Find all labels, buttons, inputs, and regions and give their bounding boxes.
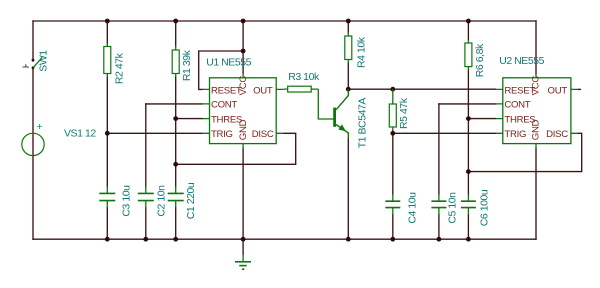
wire C3 bottom to rail: [106, 208, 108, 240]
svg-text:R6 6,8k: R6 6,8k: [474, 43, 486, 77]
svg-text:U2 NE555: U2 NE555: [499, 55, 544, 67]
capacitor C1: [168, 182, 197, 219]
svg-text:TRIG: TRIG: [504, 129, 526, 140]
wire left rail upper: [32, 21, 34, 60]
wire top rail: [33, 20, 536, 22]
wire R6 column top: [467, 21, 469, 40]
node top rail R6: [466, 19, 471, 24]
wire CONT2 horizontal: [439, 103, 496, 105]
svg-text:TRIG: TRIG: [211, 129, 233, 140]
node bottom rail C6: [466, 237, 471, 242]
resistor R6: [465, 40, 486, 78]
node top rail R2: [105, 19, 110, 24]
node DISC1 join: [173, 162, 178, 167]
svg-text:C3 10u: C3 10u: [120, 185, 132, 217]
svg-text:OUT: OUT: [548, 85, 568, 96]
capacitor C2: [138, 185, 168, 217]
node RESET1 VCC join: [241, 49, 246, 54]
wire C5 column: [438, 104, 440, 194]
node bottom rail C5: [437, 237, 442, 242]
wire GND2 column: [535, 149, 537, 240]
node bottom rail T1 emitter: [346, 237, 351, 242]
wire R1 bottom through THRES TRIG DISC to C1: [175, 77, 177, 186]
svg-text:CONT: CONT: [504, 100, 530, 111]
wire OUT2 stub end: [578, 88, 581, 90]
capacitor C3: [99, 185, 132, 217]
capacitor C4: [385, 192, 418, 224]
resistor R5: [389, 89, 410, 130]
wire R4 bottom to collector node: [347, 63, 349, 89]
node R5 top: [390, 87, 395, 92]
resistor R2: [104, 44, 125, 85]
svg-text:R2 47k: R2 47k: [113, 52, 125, 84]
node collector R4: [346, 87, 351, 92]
svg-text:VCC: VCC: [531, 76, 542, 96]
node bottom rail C4: [390, 237, 395, 242]
op-amp U1 NE555: [202, 56, 283, 148]
node bottom rail ground: [241, 237, 246, 242]
node bottom rail C3: [105, 237, 110, 242]
voltage source VS1: [22, 121, 97, 155]
wire THRES2 horizontal: [468, 118, 495, 120]
svg-text:R4 10k: R4 10k: [355, 36, 367, 68]
wire C2 column: [145, 104, 147, 186]
wire TRIG1 horizontal: [107, 132, 202, 134]
svg-text:C4 10u: C4 10u: [406, 192, 418, 224]
wire R6 bottom through THRES2 DISC2 to C6: [467, 70, 469, 194]
svg-text:+: +: [37, 121, 43, 133]
node top rail VCC1: [241, 19, 246, 24]
svg-text:U1 NE555: U1 NE555: [206, 56, 251, 68]
capacitor C5: [431, 192, 458, 224]
capacitor C6: [461, 189, 490, 226]
wire C6 bottom to rail: [467, 215, 469, 240]
node bottom rail C1: [173, 237, 178, 242]
ground: [235, 255, 251, 270]
node TRIG1: [105, 131, 110, 136]
svg-text:C2 10n: C2 10n: [156, 185, 168, 217]
wire collector horizontal to U2 RESET: [348, 88, 495, 90]
svg-text:GND: GND: [238, 119, 249, 140]
wire C5 bottom to rail: [438, 215, 440, 240]
svg-text:DISC: DISC: [546, 129, 568, 140]
svg-text:SW1: SW1: [37, 50, 49, 72]
switch SW1: [23, 50, 50, 72]
wire left rail lower: [32, 68, 34, 239]
wire TRIG2 horizontal: [393, 132, 496, 134]
wire DISC1 routing: [176, 133, 296, 164]
svg-text:VCC: VCC: [238, 76, 249, 96]
svg-text:DISC: DISC: [252, 129, 274, 140]
node THRES1: [173, 116, 178, 121]
node top rail R4: [346, 19, 351, 24]
wire R1 column top: [175, 21, 177, 46]
wire GND1 column: [242, 149, 244, 240]
wire ground stem: [242, 239, 244, 254]
node THRES2: [466, 116, 471, 121]
wire RESET1 loop: [199, 51, 243, 89]
wire CONT1 horizontal: [146, 103, 203, 105]
wire R4 column top: [347, 21, 349, 33]
wire VCC2 column: [535, 21, 537, 74]
node TRIG2: [390, 131, 395, 136]
wire R5 bottom to TRIG2 node: [392, 131, 394, 195]
resistor R4: [345, 33, 368, 68]
wire C1 bottom to rail: [175, 208, 177, 240]
svg-text:R5 47k: R5 47k: [398, 97, 410, 129]
wire R2 column top: [106, 21, 108, 44]
svg-text:VS1 12: VS1 12: [64, 127, 96, 139]
node bottom rail C2: [143, 237, 148, 242]
wire THRES1 horizontal: [176, 118, 203, 120]
svg-text:OUT: OUT: [253, 85, 273, 96]
wire bottom rail: [33, 238, 536, 240]
wire DISC2 routing: [468, 133, 581, 171]
wire R2 column to TRIG node and C3: [106, 77, 108, 186]
svg-text:R3 10k: R3 10k: [288, 71, 320, 83]
node top rail R1: [173, 19, 178, 24]
resistor R3: [284, 71, 334, 119]
svg-text:C1 220u: C1 220u: [185, 182, 197, 219]
wire VCC1 column: [242, 21, 244, 74]
wire T1 emitter to rail: [347, 139, 349, 240]
transistor Q1 T1: [333, 89, 368, 148]
wire C2 bottom to rail: [145, 208, 147, 240]
svg-text:C6 100u: C6 100u: [478, 189, 490, 226]
svg-text:CONT: CONT: [211, 100, 237, 111]
node DISC2 join: [466, 169, 471, 174]
svg-text:R1 39k: R1 39k: [181, 49, 193, 81]
svg-text:GND: GND: [531, 119, 542, 140]
wire C4 bottom to rail: [392, 215, 394, 240]
op-amp U2 NE555: [496, 55, 578, 149]
resistor R1: [172, 46, 193, 81]
svg-text:C5 10n: C5 10n: [447, 192, 459, 224]
svg-text:T1 BC547A: T1 BC547A: [357, 98, 369, 149]
